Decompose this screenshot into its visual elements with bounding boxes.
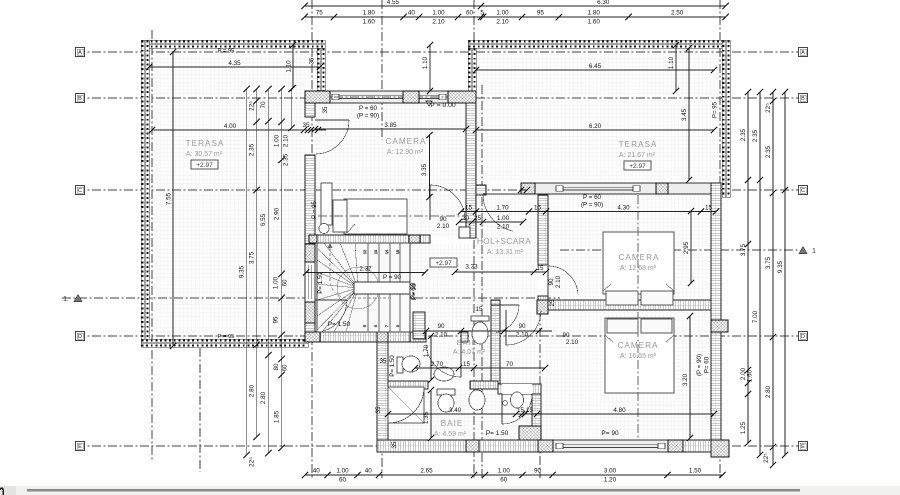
pier band left <box>521 183 535 194</box>
ticks 1.10 right <box>673 42 679 48</box>
svg-text:HOL+SCARA: HOL+SCARA <box>477 237 531 246</box>
wall camera 12.90 south <box>309 235 430 243</box>
svg-text:2.10: 2.10 <box>566 339 579 346</box>
svg-text:13: 13 <box>374 250 378 254</box>
svg-text:60: 60 <box>282 364 289 372</box>
svg-text:4.35: 4.35 <box>228 60 241 67</box>
door opening camera 16.55 <box>506 300 541 310</box>
svg-text:6.20: 6.20 <box>589 123 602 130</box>
svg-text:(P = 90): (P = 90) <box>581 202 603 209</box>
svg-text:1.70: 1.70 <box>423 344 430 357</box>
ticks 1.10 center <box>427 42 433 48</box>
svg-text:3.75: 3.75 <box>249 251 256 264</box>
svg-text:2.37: 2.37 <box>359 266 372 273</box>
door stair exterior arc <box>315 300 347 331</box>
axis E line <box>76 445 807 447</box>
pier south baie <box>466 440 479 452</box>
grid bubble C left <box>76 186 85 195</box>
level box hol <box>430 258 457 267</box>
bed axis camera 12.90 <box>318 215 466 217</box>
dim 4.80 <box>513 407 717 417</box>
svg-text:2.95: 2.95 <box>683 241 690 254</box>
svg-text:2.10: 2.10 <box>437 223 450 230</box>
bottom corner glyph <box>0 487 4 495</box>
bed axis camera 12.68 <box>637 195 639 303</box>
svg-text:1.60: 1.60 <box>747 369 754 382</box>
svg-text:A: 12.68 m²: A: 12.68 m² <box>620 265 657 272</box>
pier top-left <box>305 91 330 103</box>
wall between baie 4.07 and 4.59 w <box>388 381 428 389</box>
wall baie-hall east <box>532 384 541 442</box>
svg-text:(P = 90): (P = 90) <box>696 354 703 376</box>
toilet wc hol <box>471 316 489 344</box>
axis line x540 <box>539 296 541 478</box>
svg-text:35: 35 <box>379 358 387 365</box>
wall camera-terasa right <box>466 103 476 238</box>
grid bubble B right <box>799 94 808 103</box>
svg-text:3.45: 3.45 <box>681 108 688 121</box>
pier window west top <box>305 244 315 262</box>
svg-text:A: 30.57 m²: A: 30.57 m² <box>186 151 223 158</box>
svg-text:35: 35 <box>391 441 398 449</box>
level box terasa right <box>624 161 651 170</box>
stair bay floor grid <box>315 244 412 332</box>
door terasa-camera arc <box>315 120 349 154</box>
svg-text:2.90: 2.90 <box>274 207 281 220</box>
svg-text:E: E <box>801 444 805 450</box>
dim 4.35 terasa <box>146 60 323 70</box>
exterior wall left mid <box>305 155 315 262</box>
wc floor grid <box>452 300 491 340</box>
svg-text:2.65: 2.65 <box>420 468 433 475</box>
toilet baie 4.07 <box>397 356 420 373</box>
svg-text:2.10: 2.10 <box>432 19 445 26</box>
dim 2.37 stair <box>303 266 428 276</box>
svg-text:40: 40 <box>365 468 373 475</box>
wall stub hol north <box>476 185 486 195</box>
svg-text:90: 90 <box>437 323 445 330</box>
wall hol-camera 12.68 lower <box>538 296 548 304</box>
bottom scrollbar thumb <box>27 489 800 491</box>
dim line left x268 <box>265 86 271 456</box>
svg-text:2.70: 2.70 <box>431 361 444 368</box>
pier baie nw <box>305 332 320 342</box>
exterior wall south <box>377 440 711 452</box>
pier top-right <box>448 91 476 103</box>
svg-text:6.55: 6.55 <box>260 213 267 226</box>
level box terasa left <box>191 160 218 169</box>
svg-text:3.75: 3.75 <box>740 243 747 256</box>
dim 70 baie407 <box>456 361 548 371</box>
svg-text:90: 90 <box>439 216 447 223</box>
svg-text:2.10: 2.10 <box>435 332 448 339</box>
dim line right x760 <box>757 89 763 458</box>
svg-text:90: 90 <box>562 332 570 339</box>
svg-text:1.80: 1.80 <box>363 10 376 17</box>
door camera 16.55 arc <box>506 310 541 345</box>
wall between cameras <box>541 300 711 310</box>
ticks 2.95 <box>688 208 694 214</box>
svg-text:75: 75 <box>316 10 324 17</box>
exterior wall right <box>711 183 721 452</box>
svg-text:6: 6 <box>374 325 378 327</box>
svg-text:P= 90: P= 90 <box>601 430 619 437</box>
svg-text:15: 15 <box>475 306 483 313</box>
svg-text:2.10: 2.10 <box>496 19 509 26</box>
door hol-camera 12.68 arc <box>548 266 578 296</box>
door opening baie 4.59 s <box>502 384 532 394</box>
ticks 3.35 camera <box>426 132 432 138</box>
pier window west bottom <box>305 302 315 323</box>
svg-text:40: 40 <box>408 10 416 17</box>
svg-text:35: 35 <box>322 106 329 114</box>
svg-text:TERASA: TERASA <box>619 140 658 149</box>
svg-text:14: 14 <box>385 250 389 254</box>
hall mid floor grid <box>476 300 541 384</box>
svg-text:1.25: 1.25 <box>740 421 747 434</box>
svg-text:P= 60: P= 60 <box>704 356 711 373</box>
svg-text:P= 90: P= 90 <box>411 283 418 300</box>
svg-text:A: 12.90 m²: A: 12.90 m² <box>387 149 424 156</box>
door camera-hol arc <box>430 185 465 220</box>
exterior wall left lower <box>305 302 315 342</box>
level symbol P000 <box>426 101 432 106</box>
svg-text:22⁵: 22⁵ <box>763 453 770 463</box>
dim line left x291 <box>289 86 295 131</box>
svg-text:90: 90 <box>534 468 542 475</box>
svg-text:P= 95: P= 95 <box>713 101 719 118</box>
bed camera 16.55 <box>605 318 674 393</box>
wall hall-baie west <box>491 300 500 385</box>
svg-text:1.00: 1.00 <box>274 134 281 147</box>
svg-text:7.00: 7.00 <box>752 310 759 323</box>
axis line x200 lower <box>199 348 201 472</box>
svg-text:CAMERA: CAMERA <box>617 341 658 350</box>
svg-text:15: 15 <box>536 265 544 272</box>
bed axis camera 16.55 <box>637 312 639 438</box>
svg-text:4.30: 4.30 <box>617 205 630 212</box>
svg-text:95: 95 <box>537 10 545 17</box>
svg-text:P = 0.00: P = 0.00 <box>430 102 456 109</box>
pier stair wall right <box>409 235 420 243</box>
dim 1.10 terasa <box>286 42 297 91</box>
dim line doors y331 <box>413 330 552 332</box>
grid bubble D right <box>799 332 808 341</box>
wall hol-camera 12.68 upper <box>538 195 548 265</box>
window axis camera 12.90 <box>318 96 448 98</box>
svg-text:6.45: 6.45 <box>589 63 602 70</box>
terasa left parapet left <box>141 40 149 346</box>
wall stair east stub <box>413 312 425 339</box>
svg-text:25: 25 <box>474 215 482 222</box>
dim line left x256 <box>254 86 260 440</box>
svg-text:3.40: 3.40 <box>449 407 462 414</box>
axis 6 line <box>719 0 721 478</box>
window south camera 16.55 <box>553 440 668 452</box>
svg-text:8: 8 <box>396 325 400 327</box>
svg-text:1.00: 1.00 <box>496 10 509 17</box>
axis 4 line <box>473 0 475 478</box>
pier bottom-right corner <box>711 440 729 457</box>
svg-text:95: 95 <box>273 316 280 324</box>
svg-text:1: 1 <box>812 248 816 255</box>
svg-text:15: 15 <box>396 250 400 254</box>
svg-text:A: 4.07 m²: A: 4.07 m² <box>453 349 486 356</box>
svg-text:90: 90 <box>548 278 555 286</box>
svg-text:A: 16.55 m²: A: 16.55 m² <box>620 353 657 360</box>
window west stair P150 <box>305 262 315 302</box>
dim line right x773 <box>770 89 776 468</box>
terasa right parapet top <box>468 40 730 48</box>
svg-text:3.00: 3.00 <box>604 468 617 475</box>
door terasa-hol arc <box>483 194 521 231</box>
svg-text:P= 1.50: P= 1.50 <box>486 430 509 437</box>
svg-text:P = 60: P = 60 <box>583 194 602 201</box>
svg-text:4.00: 4.00 <box>224 123 237 130</box>
axis 2 line <box>311 0 313 478</box>
svg-text:1.60: 1.60 <box>588 19 601 26</box>
dim 1.70-4.30 hol <box>458 205 719 215</box>
axis 3 line lower <box>381 330 383 478</box>
svg-text:3.20: 3.20 <box>682 373 689 386</box>
svg-text:1.: 1. <box>63 296 69 303</box>
baie 4.07 floor grid <box>388 342 491 381</box>
svg-text:60: 60 <box>282 279 289 287</box>
svg-text:22⁵: 22⁵ <box>765 103 772 113</box>
svg-text:25: 25 <box>549 299 556 307</box>
door baie 4.07 arc <box>426 342 461 377</box>
svg-text:P = 95: P = 95 <box>218 334 235 340</box>
ticks 3.45 terasa right <box>686 45 692 51</box>
svg-text:60: 60 <box>466 10 474 17</box>
svg-text:2.80: 2.80 <box>249 384 256 397</box>
terasa left parapet right connector <box>317 48 325 92</box>
exterior wall left top <box>305 91 315 117</box>
dim line left x246 <box>244 86 250 458</box>
baie 4.59 floor grid <box>388 389 532 440</box>
camera 12.90 floor grid <box>315 103 466 237</box>
axis 1 line <box>151 30 153 462</box>
wall between baie 4.07 and 4.59 e <box>470 381 498 389</box>
terasa right parapet right <box>722 40 730 197</box>
sink baie 4.07 <box>434 367 454 381</box>
axis 3 line upper <box>381 0 383 140</box>
svg-text:1.00: 1.00 <box>273 276 280 289</box>
pier wall cameras west end <box>537 300 548 314</box>
pier south left-mid <box>538 440 553 452</box>
svg-text:2.80: 2.80 <box>765 385 772 398</box>
door baie 4.59 arc <box>502 394 532 424</box>
svg-text:A: 4.59 m²: A: 4.59 m² <box>434 431 467 438</box>
bed camera 12.68 <box>603 232 674 305</box>
svg-text:A: 21.67 m²: A: 21.67 m² <box>619 152 656 159</box>
svg-text:P = 95: P = 95 <box>311 200 318 219</box>
bottom scrollbar track <box>0 486 900 495</box>
pier band right <box>656 183 668 194</box>
svg-text:2.10: 2.10 <box>497 224 510 231</box>
svg-text:15: 15 <box>526 407 534 414</box>
svg-text:B: B <box>78 96 82 102</box>
pier top-mid <box>403 91 419 103</box>
svg-text:1.10: 1.10 <box>422 56 429 69</box>
svg-text:22⁵: 22⁵ <box>249 101 256 111</box>
dim 3.33 hol <box>452 265 549 275</box>
grid bubble D left <box>76 332 85 341</box>
pier stair wall left <box>309 235 317 243</box>
ticks 1.35 baie459 <box>428 387 434 393</box>
svg-text:4.80: 4.80 <box>613 407 626 414</box>
floor drain baie <box>503 401 508 406</box>
svg-text:A: A <box>78 50 82 56</box>
wardrobe camera 12.90 <box>321 183 332 225</box>
dim 2.70 baie407 <box>412 361 462 371</box>
grid bubble E right <box>799 442 808 451</box>
stair handrail <box>354 282 410 294</box>
svg-text:P= 1.50: P= 1.50 <box>328 321 351 328</box>
svg-text:P = 95: P = 95 <box>218 49 235 55</box>
camera 12.68 floor grid <box>548 195 711 305</box>
svg-text:TERASA: TERASA <box>186 139 225 148</box>
toilet baie 4.59 <box>437 389 455 412</box>
svg-text:5: 5 <box>363 325 367 327</box>
section line 1 right <box>560 249 798 251</box>
dim 4.00 terasa <box>149 123 311 133</box>
pier camera 16.55 bottom-left <box>519 426 541 447</box>
svg-text:2.35: 2.35 <box>765 145 772 158</box>
svg-text:D: D <box>78 334 82 340</box>
terasa right floor grid <box>476 48 723 180</box>
svg-text:+2.97: +2.97 <box>435 260 452 267</box>
svg-text:3.75: 3.75 <box>765 256 772 269</box>
dim 3.40 baie459 <box>385 407 540 417</box>
svg-text:C: C <box>78 188 82 194</box>
grid bubble E left <box>76 442 85 451</box>
svg-text:+2.97: +2.97 <box>196 162 213 169</box>
svg-text:A: A <box>801 50 805 56</box>
grid bubble C right <box>799 186 808 195</box>
window band camera 12.90 north <box>315 91 466 103</box>
svg-text:22⁵: 22⁵ <box>249 457 256 467</box>
svg-text:70: 70 <box>506 361 514 368</box>
svg-text:5: 5 <box>480 10 484 17</box>
svg-text:1.70: 1.70 <box>496 205 509 212</box>
svg-text:P= 1.50: P= 1.50 <box>389 355 396 377</box>
svg-text:P= 1.50: P= 1.50 <box>317 272 324 294</box>
hol upper floor grid <box>476 195 538 300</box>
wall hall-baie south <box>498 384 541 394</box>
svg-text:15: 15 <box>465 205 473 212</box>
svg-text:2.10: 2.10 <box>555 275 562 288</box>
svg-text:35: 35 <box>310 57 316 64</box>
pilaster right <box>711 320 728 332</box>
bottom bar left block <box>0 486 16 495</box>
svg-text:1.00: 1.00 <box>336 468 349 475</box>
section marker 1 right <box>799 247 816 256</box>
grid bubble A right <box>799 48 808 57</box>
svg-text:3.85: 3.85 <box>384 122 397 129</box>
door wc arc <box>491 305 519 333</box>
svg-text:1.85: 1.85 <box>274 410 281 423</box>
svg-text:D: D <box>801 334 805 340</box>
dim line right x748 <box>745 89 751 446</box>
svg-text:1.80: 1.80 <box>588 10 601 17</box>
svg-text:12: 12 <box>363 250 367 254</box>
section line 1 left <box>62 297 560 299</box>
basin hall south <box>511 392 524 408</box>
bidet baie 4.59 <box>469 390 485 410</box>
svg-text:B: B <box>801 96 805 102</box>
svg-text:2.35: 2.35 <box>740 128 747 141</box>
svg-text:1.20: 1.20 <box>604 477 617 484</box>
svg-text:1.10: 1.10 <box>286 60 293 73</box>
pier south mid <box>668 440 683 452</box>
svg-text:80: 80 <box>273 363 280 371</box>
svg-text:15: 15 <box>705 205 713 212</box>
svg-text:2.10: 2.10 <box>516 332 529 339</box>
pier baie n mid <box>377 332 388 342</box>
camera 16.55 floor grid <box>541 310 711 440</box>
svg-text:(P = 90): (P = 90) <box>357 113 379 120</box>
svg-text:7.55: 7.55 <box>166 192 173 205</box>
ticks 1.70 baie407 <box>428 333 434 339</box>
svg-text:P = 90: P = 90 <box>383 274 402 281</box>
svg-text:P = 60: P = 60 <box>359 105 378 112</box>
svg-text:20: 20 <box>462 215 470 222</box>
axis D line <box>76 335 807 337</box>
wall baie west <box>377 342 388 452</box>
shower baie 4.59 <box>388 387 424 423</box>
dim chain top detail <box>302 10 729 26</box>
svg-text:1.00: 1.00 <box>497 215 510 222</box>
svg-text:15: 15 <box>463 361 471 368</box>
dim chain bottom <box>302 468 726 484</box>
window band camera 12.68 north <box>521 183 714 194</box>
stair winder <box>317 243 410 332</box>
svg-text:15: 15 <box>534 205 542 212</box>
wall corridor south w <box>410 332 426 342</box>
dim line right x785 <box>782 89 788 458</box>
ticks 3.20 <box>687 313 693 319</box>
svg-text:2.35: 2.35 <box>752 129 759 142</box>
svg-text:3.35: 3.35 <box>421 163 428 176</box>
svg-text:3.33: 3.33 <box>465 264 478 271</box>
svg-text:90: 90 <box>518 323 526 330</box>
terasa right parapet left connector <box>468 48 476 91</box>
svg-text:60: 60 <box>339 477 347 484</box>
svg-text:35: 35 <box>375 406 382 414</box>
svg-text:2.10: 2.10 <box>283 134 290 147</box>
svg-text:9.35: 9.35 <box>239 265 246 278</box>
section marker 1 left <box>63 295 82 304</box>
wall stair-baie north <box>305 332 410 342</box>
svg-text:+2.97: +2.97 <box>629 163 646 170</box>
svg-text:E: E <box>78 444 82 450</box>
svg-text:7: 7 <box>385 325 389 327</box>
dim chain top overall <box>302 0 729 9</box>
axis C line <box>76 189 807 191</box>
wall corridor south e <box>461 332 468 342</box>
axis B line <box>76 97 807 99</box>
svg-text:BAIE: BAIE <box>441 419 464 428</box>
svg-text:A: 13.31 m²: A: 13.31 m² <box>487 249 524 256</box>
svg-text:70: 70 <box>260 101 267 109</box>
niche hol west <box>459 227 470 238</box>
svg-text:1.00: 1.00 <box>498 468 511 475</box>
svg-text:2.35: 2.35 <box>249 143 256 156</box>
svg-text:1.00: 1.00 <box>432 10 445 17</box>
svg-text:4.55: 4.55 <box>387 0 400 6</box>
dim 6.45 terasa right <box>473 63 717 73</box>
